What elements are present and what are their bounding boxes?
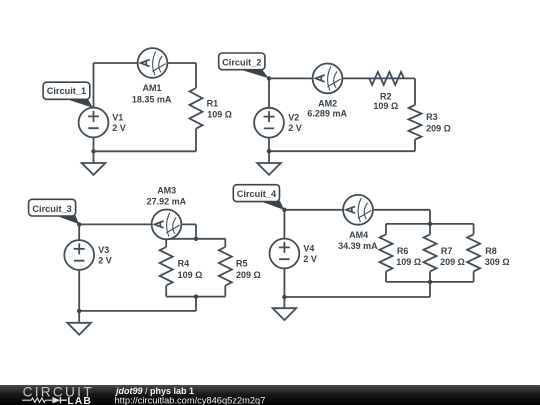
resistor R4 (160, 247, 173, 286)
wire V4 bottom (283, 268, 285, 308)
wire parallel bottom bar (166, 296, 225, 298)
wire drop to bottom rail (429, 282, 431, 297)
svg-text:109 Ω: 109 Ω (178, 270, 203, 280)
node junction dot top (267, 76, 271, 80)
wire V4 riser (283, 210, 285, 239)
resistor R6 (380, 234, 393, 271)
wire R6 bottom lead (385, 271, 387, 282)
wire parallel top bar (386, 223, 474, 225)
wire bottom rail (94, 150, 197, 152)
resistor R5 (219, 247, 232, 286)
svg-text:209 Ω: 209 Ω (440, 257, 465, 267)
node junction dot top-left (77, 222, 81, 226)
svg-text:AM3: AM3 (157, 185, 176, 195)
node junction dot par bottom (194, 294, 198, 298)
wire right riser to R1 (195, 63, 197, 88)
voltage source V3 (64, 240, 94, 270)
node junction dot par top (428, 222, 432, 226)
ammeter AM1 (138, 48, 168, 78)
wire top rail (269, 77, 415, 79)
resistor R7 (424, 234, 437, 271)
node flag Circuit_4 (233, 185, 284, 210)
svg-text:27.92 mA: 27.92 mA (147, 196, 187, 206)
node flag Circuit_1 (43, 82, 93, 108)
svg-text:V4: V4 (303, 243, 314, 253)
wire bottom rail (269, 150, 415, 152)
resistor R2 (369, 72, 404, 85)
svg-text:2 V: 2 V (303, 254, 317, 264)
svg-text:209 Ω: 209 Ω (236, 270, 261, 280)
voltage source V4 (270, 239, 300, 269)
ground (273, 308, 297, 320)
wire R7 bottom lead (429, 271, 431, 282)
svg-text:309 Ω: 309 Ω (485, 257, 510, 267)
svg-text:2 V: 2 V (112, 123, 126, 133)
node junction dot bottom (267, 149, 271, 153)
wire right riser (414, 78, 416, 105)
wire R8 top lead (473, 224, 475, 235)
logo resistor zigzag (31, 398, 45, 402)
ammeter AM2 (313, 64, 343, 94)
wire R4 top lead (165, 239, 167, 247)
svg-text:R8: R8 (485, 246, 497, 256)
wire R7 top lead (429, 224, 431, 235)
wire AM3 right corner down (195, 224, 197, 238)
wire V2 bottom (268, 137, 270, 163)
svg-text:2 V: 2 V (98, 256, 112, 266)
wire top rail (284, 209, 430, 211)
wire parallel bottom bar (386, 281, 474, 283)
svg-text:R6: R6 (397, 246, 409, 256)
svg-text:V2: V2 (288, 113, 299, 123)
svg-text:109 Ω: 109 Ω (396, 257, 421, 267)
svg-text:109 Ω: 109 Ω (373, 101, 398, 111)
resistor R8 (467, 234, 480, 271)
wire top rail (79, 223, 196, 225)
wire bottom rail (284, 296, 430, 298)
node flag Circuit_2 (219, 53, 269, 78)
wire parallel top bar (166, 238, 225, 240)
svg-text:18.35 mA: 18.35 mA (132, 95, 172, 105)
logo schematic wire (22, 399, 31, 401)
wire R5 bottom lead (224, 286, 226, 297)
wire V2 riser (268, 78, 270, 107)
voltage source V1 (79, 108, 109, 138)
wire R3 bottom (414, 140, 416, 152)
svg-text:Circuit_2: Circuit_2 (222, 57, 261, 67)
resistor R3 (409, 105, 422, 140)
svg-text:R3: R3 (426, 112, 438, 122)
wire bottom rail (79, 310, 196, 312)
ground (82, 163, 106, 175)
svg-text:LAB: LAB (67, 396, 91, 405)
svg-text:Circuit_3: Circuit_3 (32, 204, 71, 214)
svg-text:R5: R5 (236, 258, 248, 268)
svg-text:R4: R4 (178, 258, 190, 268)
resistor R1 (190, 88, 203, 129)
svg-text:209 Ω: 209 Ω (426, 123, 451, 133)
node junction dot top-left (282, 208, 286, 212)
logo wire 2 (45, 399, 52, 401)
svg-text:AM2: AM2 (318, 98, 337, 108)
svg-text:R1: R1 (207, 98, 219, 108)
node flag Circuit_3 (29, 199, 80, 224)
wire R5 top lead (224, 239, 226, 247)
voltage source V2 (254, 108, 284, 138)
wire corner down to par bar (429, 210, 431, 224)
svg-text:R2: R2 (380, 91, 392, 101)
ammeter AM4 (343, 195, 373, 225)
wire R8 bottom lead (473, 271, 475, 282)
wire V1 top to top rail (93, 63, 95, 108)
wire V3 bottom (78, 270, 80, 323)
wire R4 bottom lead (165, 286, 167, 297)
logo diode (52, 397, 60, 404)
wire V1 bottom (93, 137, 95, 163)
svg-text:V3: V3 (98, 245, 109, 255)
node junction dot par bottom (428, 280, 432, 284)
ground (67, 323, 91, 335)
wire drop to bottom rail (195, 297, 197, 311)
svg-text:AM4: AM4 (349, 230, 368, 240)
ground (257, 163, 281, 175)
svg-text:V1: V1 (112, 112, 123, 122)
svg-text:34.39 mA: 34.39 mA (338, 241, 378, 251)
wire top rail (94, 62, 197, 64)
svg-text:http://circuitlab.com/cy846q5z: http://circuitlab.com/cy846q5z2m2q7 (115, 396, 266, 405)
svg-text:2 V: 2 V (288, 123, 302, 133)
node junction dot bottom-left (282, 295, 286, 299)
svg-text:AM1: AM1 (142, 83, 161, 93)
node junction dot par top (194, 237, 198, 241)
wire V3 riser (78, 224, 80, 240)
node junction dot (91, 149, 95, 153)
node junction dot bottom-left (77, 309, 81, 313)
wire R1 bottom (195, 129, 197, 152)
wire R6 top lead (385, 224, 387, 235)
ammeter AM3 (152, 210, 182, 240)
svg-text:Circuit_1: Circuit_1 (47, 86, 86, 96)
svg-text:R7: R7 (441, 246, 453, 256)
svg-text:109 Ω: 109 Ω (207, 110, 232, 120)
svg-text:Circuit_4: Circuit_4 (237, 189, 277, 199)
svg-text:6.289 mA: 6.289 mA (307, 109, 347, 119)
